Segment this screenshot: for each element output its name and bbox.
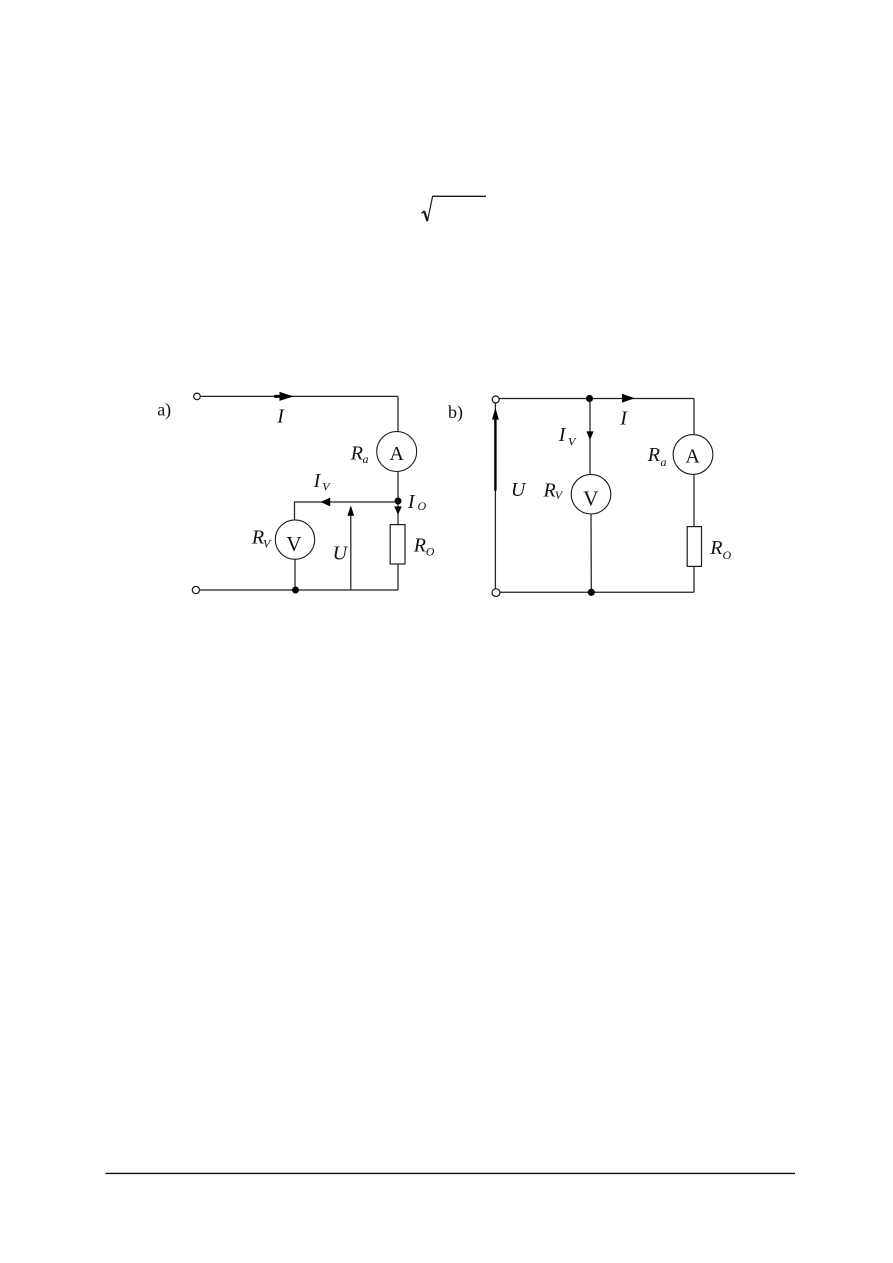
arrow Iv (left) <box>321 498 331 507</box>
svg-text:O: O <box>426 545 435 559</box>
svg-text:A: A <box>685 445 700 467</box>
terminal bottom-left (b) <box>492 589 500 597</box>
node junction dot bottom (b) <box>588 589 595 596</box>
node junction dot (top of Ro branch) <box>395 498 402 505</box>
svg-text:V: V <box>263 536 272 550</box>
voltmeter (a) circle <box>275 520 314 559</box>
wire resistor to bottom <box>397 564 399 590</box>
svg-text:V: V <box>583 487 598 511</box>
svg-text:I: I <box>276 406 285 428</box>
wire voltmeter bottom (b) <box>590 514 592 592</box>
svg-text:I: I <box>313 470 322 492</box>
svg-text:R: R <box>350 442 363 464</box>
terminal bottom-left (open circle) <box>192 586 199 593</box>
wire bottom horizontal <box>200 589 398 591</box>
svg-text:U: U <box>333 543 349 565</box>
wire left vertical (b) <box>494 403 496 589</box>
voltmeter (b) circle <box>571 474 611 514</box>
wire bottom horizontal (b) <box>500 591 694 593</box>
terminal top-left (open circle) <box>194 393 201 400</box>
ammeter U1 circle <box>377 432 417 472</box>
wire ammeter to resistor (b) <box>693 474 695 526</box>
svg-text:O: O <box>723 548 732 562</box>
svg-text:a: a <box>661 455 667 469</box>
arrow Io (down) <box>394 506 402 514</box>
svg-text:V: V <box>555 488 564 502</box>
svg-text:I: I <box>619 407 628 429</box>
wire resistor to bottom (b) <box>693 566 695 592</box>
svg-text:V: V <box>322 480 331 494</box>
wire right vertical to ammeter <box>397 396 399 431</box>
svg-text:V: V <box>286 532 301 556</box>
svg-text:R: R <box>413 534 426 556</box>
terminal top-left (b) <box>492 396 499 403</box>
svg-text:O: O <box>418 499 427 513</box>
svg-text:I: I <box>407 491 416 513</box>
svg-text:b): b) <box>448 402 463 423</box>
svg-text:a: a <box>363 452 369 466</box>
svg-text:V: V <box>568 435 577 449</box>
arrow I (current direction, right) <box>274 392 293 401</box>
U measurement arrow (a) <box>350 508 352 590</box>
svg-text:I: I <box>558 424 567 446</box>
svg-text:U: U <box>511 479 527 501</box>
node junction dot top (b) <box>586 395 593 402</box>
arrow I (b, right) <box>622 394 635 403</box>
arrow Iv (b, down) <box>586 431 593 440</box>
wire voltmeter horizontal branch <box>295 501 399 503</box>
wire corner down to voltmeter <box>294 501 296 520</box>
square root radical sign <box>422 196 486 221</box>
wire voltmeter branch upper (b) <box>589 399 591 475</box>
footer horizontal rule <box>106 1172 796 1174</box>
svg-text:a): a) <box>157 400 171 421</box>
wire top horizontal (b) <box>499 398 694 400</box>
wire ammeter to resistor <box>397 471 399 524</box>
node junction dot bottom (a) <box>292 587 299 594</box>
wire right vertical to ammeter (b) <box>693 399 695 435</box>
resistor Ro (b) <box>687 527 701 567</box>
U arrow (b): bold shaft + head up <box>494 420 496 491</box>
svg-text:R: R <box>647 444 660 466</box>
resistor Ro (a) <box>390 525 405 564</box>
ammeter (b) circle <box>673 435 713 475</box>
svg-text:A: A <box>389 443 404 465</box>
wire top horizontal <box>200 395 398 397</box>
svg-text:R: R <box>709 537 722 559</box>
wire voltmeter bottom <box>294 559 296 590</box>
